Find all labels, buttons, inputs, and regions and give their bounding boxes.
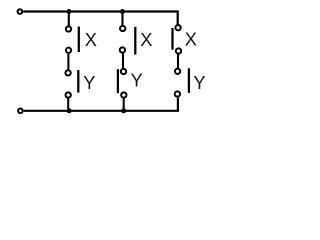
svg-text:X: X [185,29,197,50]
svg-text:X: X [85,29,97,50]
svg-text:X: X [140,29,152,50]
svg-text:Y: Y [83,72,95,93]
svg-text:Y: Y [193,72,205,93]
svg-text:Y: Y [131,70,143,91]
